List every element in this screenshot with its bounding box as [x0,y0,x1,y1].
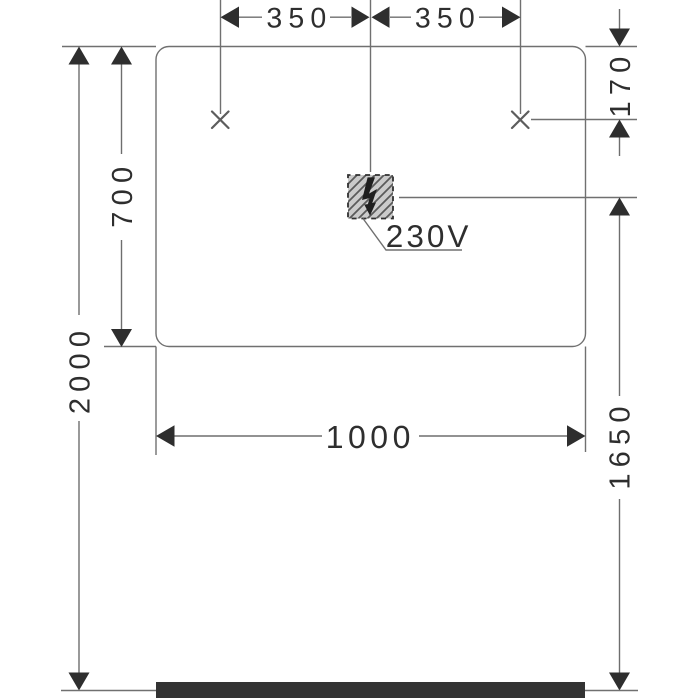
mirror bottom edge extension left [104,346,156,348]
arrow right (350) [502,7,521,28]
dim 1000 line right [419,435,567,437]
floor line [61,690,638,692]
svg-text:350: 350 [266,2,332,34]
socket box dashed border [348,175,393,219]
svg-text:230V: 230V [386,218,472,254]
svg-text:170: 170 [605,51,637,118]
extension line center (x=370.5) [370,0,372,172]
svg-text:1650: 1650 [605,400,637,489]
dim 1650 up arrow [609,198,630,216]
mirror outline [156,47,586,347]
dimension line 350 left segment [239,16,351,18]
floor bar [156,682,585,698]
extension line left (x=220.5) [220,0,222,114]
dim 2000 line upper [78,65,80,316]
svg-text:350: 350 [415,2,481,34]
mirror top edge extension left [62,46,156,48]
dim 2000 line lower [78,421,80,673]
level line at fixing points [531,119,637,121]
fixing point X left [212,112,229,129]
arrow center left-pointing (350) [372,7,390,28]
dim 700 line lower [121,240,123,329]
socket box hatching [339,166,438,229]
fixing point X right [512,112,529,129]
leader line to 230V [363,219,462,251]
extension line below mirror right [585,347,587,453]
dim 2000 down arrow [69,673,90,691]
dim 170 lower tail [619,138,621,157]
dim 700 line upper [121,65,123,155]
dim 1000 left arrow [156,425,175,446]
svg-text:1000: 1000 [326,419,415,455]
svg-text:2000: 2000 [65,325,97,414]
mirror top edge extension right [586,46,638,48]
dim 1000 line left [175,435,323,437]
dim 1650 line upper [619,216,621,397]
level line at socket [399,197,637,199]
dim 2000 up arrow [69,47,90,65]
dim 1650 down arrow [609,673,630,691]
arrow left (350) [221,7,240,28]
dim 170 down arrow [609,29,630,47]
socket box fill [348,175,393,219]
dim 170 up arrow [609,120,630,138]
dimension line 350 right segment [390,16,502,18]
dim 1000 right arrow [567,425,586,446]
dim 700 down arrow [111,329,132,347]
extension line right (x=520.5) [520,0,522,114]
dim 170 upper tail [619,9,621,30]
extension line below mirror left [155,347,157,456]
dim 1650 line lower [619,499,621,673]
dim 700 up arrow [111,47,132,65]
svg-text:700: 700 [107,161,139,228]
lightning bolt [362,177,377,215]
arrow center right-pointing (350) [352,7,370,28]
